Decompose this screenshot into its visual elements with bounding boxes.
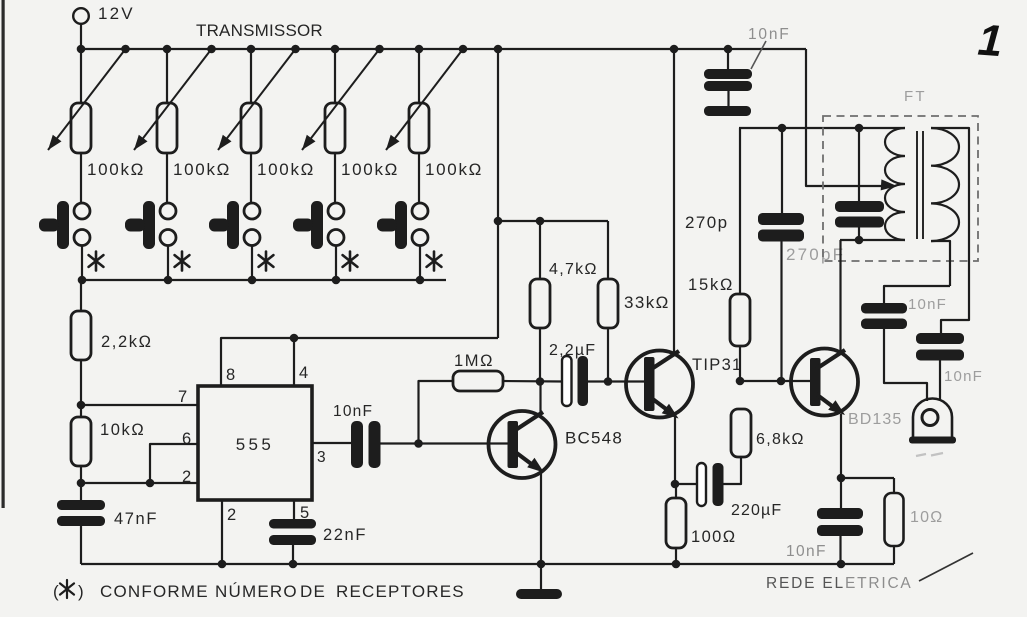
label 22nF [323,526,367,544]
junction osc VCC on bus [494,45,503,54]
label P2 100kΩ [173,160,231,179]
plug faint text [916,453,943,456]
svg-text:NÚMERO: NÚMERO [215,582,298,601]
junction collector node BC548 [536,377,545,386]
svg-text:10Ω: 10Ω [910,509,943,526]
wire tank top line [739,127,905,129]
wire tank bottom line [840,239,905,241]
svg-text:2: 2 [182,468,191,486]
IC U1 555 body [198,386,312,500]
wire pin 7 to 555 [81,404,198,406]
label P5 100kΩ [425,160,483,179]
wire pot P2 to switch [166,153,168,203]
junction arrow P3 on 12V bus [291,45,300,54]
transistor Q1 emitter [514,451,544,473]
svg-text:REDE ELETRICA: REDE ELETRICA [766,575,913,592]
transistor Q2 base bar [644,357,655,411]
title TRANSMISSOR [196,21,323,40]
wire secondary bottom [931,241,950,286]
capacitor C8 270pF [835,128,884,240]
svg-text:555: 555 [236,435,275,454]
wire Q2 emitter down [674,417,676,484]
transformer primary coil [885,128,905,240]
pushbutton S2 actuator [125,201,155,249]
label 47nF [114,510,158,528]
wire switch S2 to bottom bus [167,246,169,281]
svg-text:100kΩ: 100kΩ [257,160,315,179]
terminal 12V [73,8,89,49]
svg-text:15kΩ: 15kΩ [688,276,734,294]
pushbutton S3 contacts [244,203,260,246]
svg-text:100kΩ: 100kΩ [425,160,483,179]
resistor R7 10kΩ [71,417,91,466]
junction 100R ground [672,560,681,569]
svg-text:4: 4 [299,364,308,382]
junction 22nF ground [289,560,298,569]
transistor Q2 collector [650,49,679,370]
label 10nF output [333,403,373,420]
wire pin 2 to 555 [81,482,198,484]
potentiometer P4 100kΩ body [325,103,345,153]
wire Q3 emitter down [840,414,842,478]
junction pot P2 on 12V bus [163,45,172,54]
junction pin2 node [77,479,86,488]
svg-text:7: 7 [178,388,187,406]
junction pin6-pin2 [146,479,155,488]
svg-text:47nF: 47nF [114,510,158,528]
junction feed left [494,217,503,226]
leader line 10nF [751,41,766,69]
label pin 2 bottom [227,506,236,524]
potentiometer P2 100kΩ body [157,103,177,153]
wire bus corner to tank [806,49,881,186]
mains plug symbol [909,399,956,444]
label 1MΩ [454,352,494,370]
transistor Q1 base bar [508,421,519,468]
junction 33k base node [604,377,613,386]
svg-text:8: 8 [226,366,235,384]
potentiometer P3 100kΩ body [241,103,261,153]
label 10Ω [910,509,943,526]
transistor Q2 emitter [650,397,679,419]
wire 1M left leg [419,381,454,444]
asterisk mark S5 [427,252,442,271]
resistor R9 4,7kΩ [530,221,550,382]
svg-text:10nF: 10nF [908,296,947,313]
junction Q1 emitter ground [537,560,546,569]
label 270pF [786,245,845,264]
label 2,2µF [549,342,596,359]
wire 555 VCC feed [221,338,498,386]
label P4 100kΩ [341,160,399,179]
label pin 3 [317,449,326,466]
svg-text:100Ω: 100Ω [691,528,736,546]
junction output node [414,439,423,448]
asterisk mark S1 [89,252,104,271]
svg-text:2,2µF: 2,2µF [549,342,596,359]
label pin 8 [226,366,235,384]
resistor R11 100Ω [666,484,686,564]
wire pin 3 output [312,442,352,444]
wire 47nF to ground rail [80,526,82,564]
junction pot P4 on 12V bus [331,45,340,54]
transistor Q2 TIP31 body [626,351,693,418]
transistor Q1 base wire [0,0,1,1]
wire pot P4 to switch [334,153,336,203]
resistor R13 15kΩ [730,128,750,381]
label TIP31 [692,356,743,374]
svg-text:DE: DE [300,582,326,601]
wire pot P2 top stem [166,49,168,103]
capacitor C3 10nF output [351,421,381,468]
wire button common bus [81,279,446,281]
label 4,7kΩ [549,261,598,278]
transformer tap arrow [881,179,897,190]
svg-text:BC548: BC548 [565,429,623,448]
svg-text:10nF: 10nF [944,368,983,385]
label 100Ω [691,528,736,546]
junction Q3 emitter node [837,474,846,483]
ground symbol [516,564,562,599]
svg-text:CONFORME: CONFORME [100,582,209,601]
junction S2 on common bus [164,276,173,285]
transformer core [917,131,923,239]
transistor Q3 emitter [816,394,845,415]
pushbutton S1 contacts [74,203,90,246]
svg-text:RECEPTORES: RECEPTORES [336,582,465,601]
label 6,8kΩ [756,431,805,448]
potentiometer P5 wiper arrow [386,49,463,150]
wire switch S1 to bottom bus [81,246,83,281]
wire left rail mid [80,360,82,417]
resistor R6 2,2kΩ [71,311,91,360]
svg-text:100kΩ: 100kΩ [341,160,399,179]
pushbutton S5 contacts [412,203,428,246]
wire pot P3 to switch [250,153,252,203]
label BD135 [848,411,902,428]
wire pot P1 top stem [80,49,82,103]
junction 15k 6,8k node [736,377,745,386]
svg-text:2,2kΩ: 2,2kΩ [101,333,153,351]
svg-text:33kΩ: 33kΩ [624,293,670,312]
label pin 2 left [182,468,191,486]
potentiometer P4 wiper arrow [302,49,380,150]
pushbutton S3 actuator [209,201,239,249]
wire emitter node right [841,477,894,479]
label 12V [98,4,135,23]
junction S5 on common bus [416,276,425,285]
junction 270pF bottom [855,236,864,245]
transformer FT dashed box [823,116,978,261]
wire switch S4 to bottom bus [335,246,337,281]
pushbutton S2 contacts [160,203,176,246]
junction pin7 node [77,401,86,410]
svg-text:TRANSMISSOR: TRANSMISSOR [196,21,323,40]
junction S1 on common bus [78,276,87,285]
label BC548 [565,429,623,448]
transistor Q3 base bar [810,358,821,406]
label pin 7 [178,388,187,406]
svg-text:100kΩ: 100kΩ [87,160,145,179]
wire pot P5 top stem [418,49,420,103]
wire 22nF to ground [292,545,294,564]
label 2,2kΩ [101,333,153,351]
svg-text:BD135: BD135 [848,411,902,428]
junction pot P3 on 12V bus [247,45,256,54]
label 10nF upper [908,296,947,313]
transformer secondary coil [931,128,959,241]
wire 1M to collector node [503,380,563,383]
wire Q1 emitter to ground [540,472,542,564]
junction 270p on tank line [778,124,787,133]
wire oscillator VCC drop [497,49,499,338]
svg-text:4,7kΩ: 4,7kΩ [549,261,598,278]
wire base node BD135 [740,380,811,382]
asterisk mark S2 [175,252,190,271]
svg-text:270pF: 270pF [786,245,845,264]
junction S3 on common bus [248,276,257,285]
svg-text:100kΩ: 100kΩ [173,160,231,179]
label 10nF mains [786,543,827,560]
transistor Q3 collector [816,240,845,369]
label REDE ELETRICA [766,575,913,592]
potentiometer P1 100kΩ body [71,103,91,153]
asterisk mark S4 [343,252,358,271]
capacitor C9 10nF upper [861,286,950,401]
resistor R10 33kΩ [598,221,618,382]
transistor Q1 BC548 body [489,411,556,478]
junction C11 ground [837,560,846,569]
svg-text:6,8kΩ: 6,8kΩ [756,431,805,448]
resistor R8 1MΩ [453,371,503,391]
pushbutton S4 actuator [293,201,323,249]
junction pot P1 on 12V bus [77,45,86,54]
capacitor C11 10nF mains [817,478,863,564]
label pin 5 [300,504,309,522]
label 15kΩ [688,276,734,294]
svg-text:10nF: 10nF [333,403,373,420]
wire pin 5 stem [293,500,295,520]
svg-text:6: 6 [182,430,191,448]
wire +12V top bus [81,48,806,50]
wire pot P1 to switch [80,153,82,203]
potentiometer P1 wiper arrow [48,49,126,150]
asterisk mark S3 [259,252,274,271]
wire pot P3 top stem [250,49,252,103]
capacitor C7 270p [758,128,804,381]
junction Q2 emitter node [671,480,680,489]
wire pin 4 stem [293,338,295,386]
caption asterisk note [53,580,465,601]
label 33kΩ [624,293,670,312]
figure number 1 [976,16,1004,67]
junction pin1 ground [218,560,227,569]
svg-text:22nF: 22nF [323,526,367,544]
label 220µF [731,502,782,519]
label P1 100kΩ [87,160,145,179]
wire switch S3 to bottom bus [251,246,253,281]
junction arrow P2 on 12V bus [207,45,216,54]
label pin 4 [299,364,308,382]
svg-text:FT: FT [904,88,927,105]
svg-text:TIP31: TIP31 [692,356,743,374]
wire secondary top [931,128,969,334]
svg-text:10nF: 10nF [748,26,791,43]
svg-text:2: 2 [227,506,236,524]
capacitor C1 47nF [57,500,105,526]
svg-text:1: 1 [976,16,1004,67]
svg-text:10nF: 10nF [786,543,827,560]
capacitor C4 2,2µF [562,356,588,406]
transistor Q3 BD135 body [791,349,858,416]
svg-text:3: 3 [317,449,326,466]
capacitor C10 10nF lower [916,333,964,401]
potentiometer P2 wiper arrow [134,49,212,150]
wire pin 6 [150,444,198,483]
label 10nF lower [944,368,983,385]
resistor R12 6,8kΩ [731,409,751,457]
svg-text:10kΩ: 10kΩ [100,421,145,439]
label P3 100kΩ [257,160,315,179]
wire output node [381,442,510,444]
label 10nF supply [748,26,791,43]
svg-text:1MΩ: 1MΩ [454,352,494,370]
wire pot P5 to switch [418,153,420,203]
resistor R14 10Ω [885,478,904,564]
label 555 [236,435,275,454]
capacitor C2 22nF [269,519,316,545]
wire C4 to TIP31 base [588,380,645,382]
transistor Q1 collector [514,382,543,432]
capacitor C5 220µF [675,457,741,506]
label pin 6 [182,430,191,448]
label FT [904,88,927,105]
junction S4 on common bus [332,276,341,285]
junction arrow P5 on 12V bus [459,45,468,54]
pushbutton S4 contacts [328,203,344,246]
junction Q2 collector on bus [670,45,679,54]
junction arrow P4 on 12V bus [375,45,384,54]
junction C6 on bus [724,45,733,54]
pushbutton S1 actuator [39,201,69,249]
wire pot P4 top stem [334,49,336,103]
potentiometer P3 wiper arrow [218,49,296,150]
wire switch S5 to bottom bus [419,246,421,281]
junction feed 4,7k [536,217,545,226]
leader line rede eletrica [919,553,973,581]
svg-text:12V: 12V [98,4,135,23]
junction pin 4 [290,334,299,343]
junction 270pF on tank line [855,124,864,133]
pushbutton S5 actuator [377,201,407,249]
svg-text:220µF: 220µF [731,502,782,519]
potentiometer P5 100kΩ body [409,103,429,153]
wire bottom ground rail [81,563,894,565]
junction pot P5 on 12V bus [415,45,424,54]
junction 270p base node [777,377,786,386]
svg-text:(: ( [53,582,59,601]
wire 4,7k top feed [498,220,608,222]
label 270p [685,213,728,232]
svg-text:): ) [78,582,84,601]
capacitor C6 10nF supply [704,49,752,116]
scan border left edge [2,0,5,508]
wire left rail upper [80,280,82,311]
svg-text:270p: 270p [685,213,728,232]
label 10kΩ [100,421,145,439]
wire left rail lower [80,466,82,501]
junction arrow P1 on 12V bus [121,45,130,54]
wire pin 1 stem [221,500,223,564]
